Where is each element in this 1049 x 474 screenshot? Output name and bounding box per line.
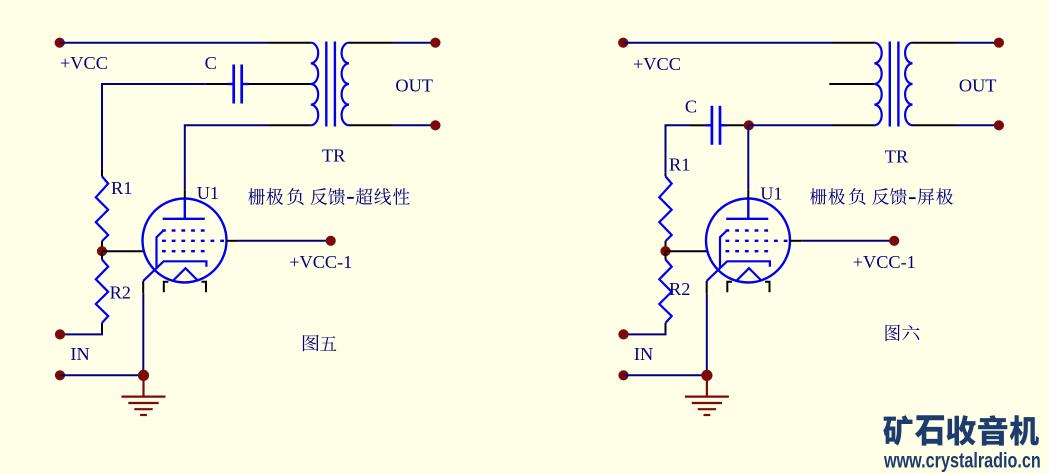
transformer TR1 primary top pin (269, 42, 311, 44)
tube U1 (right) screen pin (790, 240, 801, 242)
wire R1 top to capacitor C (left) (102, 84, 206, 168)
capacitor C right pin to transformer UL tap (248, 83, 310, 85)
capacitor C pin left (right ckt) (691, 124, 706, 126)
svg-text:www.crystalradio.cn: www.crystalradio.cn (883, 448, 1041, 472)
transformer TR primary bottom pin (left) (269, 124, 311, 126)
wire screen to +VCC-1 (left) (238, 240, 331, 242)
wire junction to grid (right) (666, 250, 708, 252)
wire screen to +VCC-1 (right) (801, 240, 894, 242)
resistor R2 top pin (right) (665, 251, 667, 259)
transformer TR primary top pin (right) (833, 42, 875, 44)
transformer TR (left) primary winding (311, 43, 318, 126)
transformer TR (right) primary winding (874, 43, 881, 126)
wire R2 to IN (right) (624, 332, 666, 335)
node ground junction (left) (138, 370, 149, 381)
resistor R1 (right) (659, 176, 671, 241)
node IN ground terminal (left) (55, 370, 65, 380)
resistor R2 bottom pin (left) (101, 323, 103, 332)
tube U1 (left) heater pin 1 (164, 282, 169, 292)
resistor R2 (left) (96, 260, 108, 323)
label: annotation text 栅极负 反馈-超线性 (left) (248, 188, 409, 205)
svg-text:R2: R2 (110, 282, 131, 302)
transformer TR secondary bottom pin (left) (349, 124, 392, 126)
resistor R2 bottom pin (right) (665, 323, 667, 332)
resistor R1 top pin (left) (101, 168, 103, 176)
tube U1 (right) plate pin (747, 190, 749, 198)
transformer TR (left) core (326, 42, 335, 127)
svg-text:OUT: OUT (395, 75, 433, 95)
svg-text:+VCC: +VCC (60, 53, 108, 73)
svg-text:C: C (205, 53, 217, 73)
svg-text:IN: IN (634, 344, 653, 364)
tube U1 (right) heater pin 1 (727, 282, 732, 292)
wire plate node down to tube (right) (747, 125, 749, 190)
tube U1 (left) cathode (143, 261, 206, 281)
resistor R2 (right) (659, 260, 671, 323)
wire R2 to IN (left) (60, 332, 102, 335)
node IN terminal (right) (618, 329, 628, 339)
svg-text:+VCC-1: +VCC-1 (289, 252, 352, 272)
svg-text:R1: R1 (111, 178, 132, 198)
wire secondary bottom to OUT (right) (956, 124, 999, 126)
capacitor C right pin (right ckt) (727, 124, 745, 126)
transformer TR primary bottom pin (right) (833, 124, 875, 126)
tube U1 (left) grid g2 screen (middle dotted) (162, 240, 227, 242)
capacitor C pin left (left ckt) (206, 83, 228, 85)
wire IN ground to cathode ground (left) (60, 374, 144, 376)
transformer TR (left) secondary winding (342, 43, 349, 126)
tube U1 (left) envelope (143, 199, 227, 283)
node OUT bottom terminal (left) (430, 120, 440, 130)
node +VCC-1 terminal (right) (889, 236, 899, 246)
tube U1 (left) grid lead (157, 231, 164, 269)
svg-text:IN: IN (70, 344, 89, 364)
tube U1 (left) cathode pin (142, 281, 144, 293)
tube U1 (left) plate (163, 199, 205, 219)
tube U1 (left) screen pin (227, 240, 238, 242)
node OUT bottom terminal (right) (994, 120, 1004, 130)
tube U1 (right) cathode pin (706, 281, 708, 293)
label: annotation text 栅极负 反馈-屏极 (right) (810, 188, 953, 204)
tube U1 (left) grid g1 (top dotted) (162, 229, 206, 231)
resistor R1 bottom pin (right) (665, 241, 667, 247)
svg-text:U1: U1 (197, 183, 219, 203)
transformer TR (right) secondary winding (905, 43, 912, 126)
wire junction to grid (left) (102, 250, 144, 252)
tube U1 (right) grid g3 (bottom dotted) (726, 250, 770, 252)
svg-text:+VCC-1: +VCC-1 (853, 252, 916, 272)
node OUT top terminal (right) (994, 38, 1004, 48)
node ground junction (right) (701, 370, 712, 381)
wire cathode to ground (left) (142, 293, 144, 375)
watermark 矿石收音机 (883, 415, 1039, 445)
tube U1 (right) heater pin 2 (765, 282, 770, 292)
transformer TR (right) core (890, 42, 899, 127)
tube U1 (left) heater (173, 268, 198, 280)
node IN ground terminal (right) (618, 370, 628, 380)
node R1-R2 junction (left) (97, 246, 107, 256)
tube U1 (right) grid g1 (top dotted) (726, 229, 770, 231)
resistor R2 top pin (left) (101, 251, 103, 259)
wire plate to transformer (left) (185, 125, 269, 190)
transformer TR secondary top pin (right) (913, 42, 956, 44)
tube U1 (right) envelope (706, 199, 790, 283)
svg-text:R1: R1 (669, 155, 690, 175)
tube U1 (right) grid lead (720, 231, 727, 269)
svg-text:C: C (685, 96, 697, 116)
node OUT top terminal (left) (430, 38, 440, 48)
svg-text:OUT: OUT (959, 76, 997, 96)
resistor R1 (left) (96, 176, 108, 241)
tube U1 (right) grid g2 screen (middle dotted) (726, 240, 791, 242)
transformer TR secondary top pin (left) (349, 42, 392, 44)
tube U1 (left) grid g3 (bottom dotted) (162, 250, 206, 252)
tube U1 (right) plate (726, 199, 768, 219)
node IN terminal (left) (55, 329, 65, 339)
wire IN ground to cathode ground (right) (624, 374, 707, 376)
tube U1 (right) heater (737, 268, 762, 280)
label 图五 (figure 5) (303, 335, 337, 351)
wire secondary top to OUT (left) (392, 42, 435, 44)
transformer TR secondary bottom pin (right) (913, 124, 956, 126)
ground symbol (left) (122, 375, 166, 415)
resistor R1 bottom pin (left) (101, 241, 103, 247)
svg-text:R2: R2 (669, 279, 690, 299)
node R1-R2 junction (right) (660, 246, 670, 256)
node +VCC terminal (right) (618, 38, 628, 48)
wire secondary bottom to OUT (left) (392, 124, 435, 126)
wire +VCC rail (right) (623, 42, 832, 44)
tube U1 (left) heater pin 2 (202, 282, 207, 292)
capacitor C (right) (706, 106, 727, 145)
svg-text:U1: U1 (760, 184, 782, 204)
svg-text:+VCC: +VCC (633, 54, 681, 74)
ground symbol (right) (685, 375, 729, 415)
svg-text:TR: TR (322, 145, 346, 165)
svg-text:TR: TR (885, 147, 909, 167)
transformer TR primary tap stub (right) (829, 83, 874, 85)
tube U1 (left) plate pin (184, 190, 186, 198)
wire +VCC rail (left) (60, 42, 269, 44)
wire cathode to ground (right) (706, 293, 708, 375)
capacitor C (left) (227, 65, 248, 104)
node plate junction (right) (744, 120, 754, 130)
wire plate node to transformer (right) (749, 124, 833, 126)
label 图六 (figure 6) (885, 325, 919, 342)
tube U1 (right) cathode (707, 261, 770, 281)
resistor R1 top pin (right) (665, 173, 667, 177)
node +VCC-1 terminal (left) (326, 236, 336, 246)
wire secondary top to OUT (right) (956, 42, 999, 44)
wire R1 top to capacitor C (right) (666, 125, 691, 173)
node +VCC terminal (left) (55, 38, 65, 48)
